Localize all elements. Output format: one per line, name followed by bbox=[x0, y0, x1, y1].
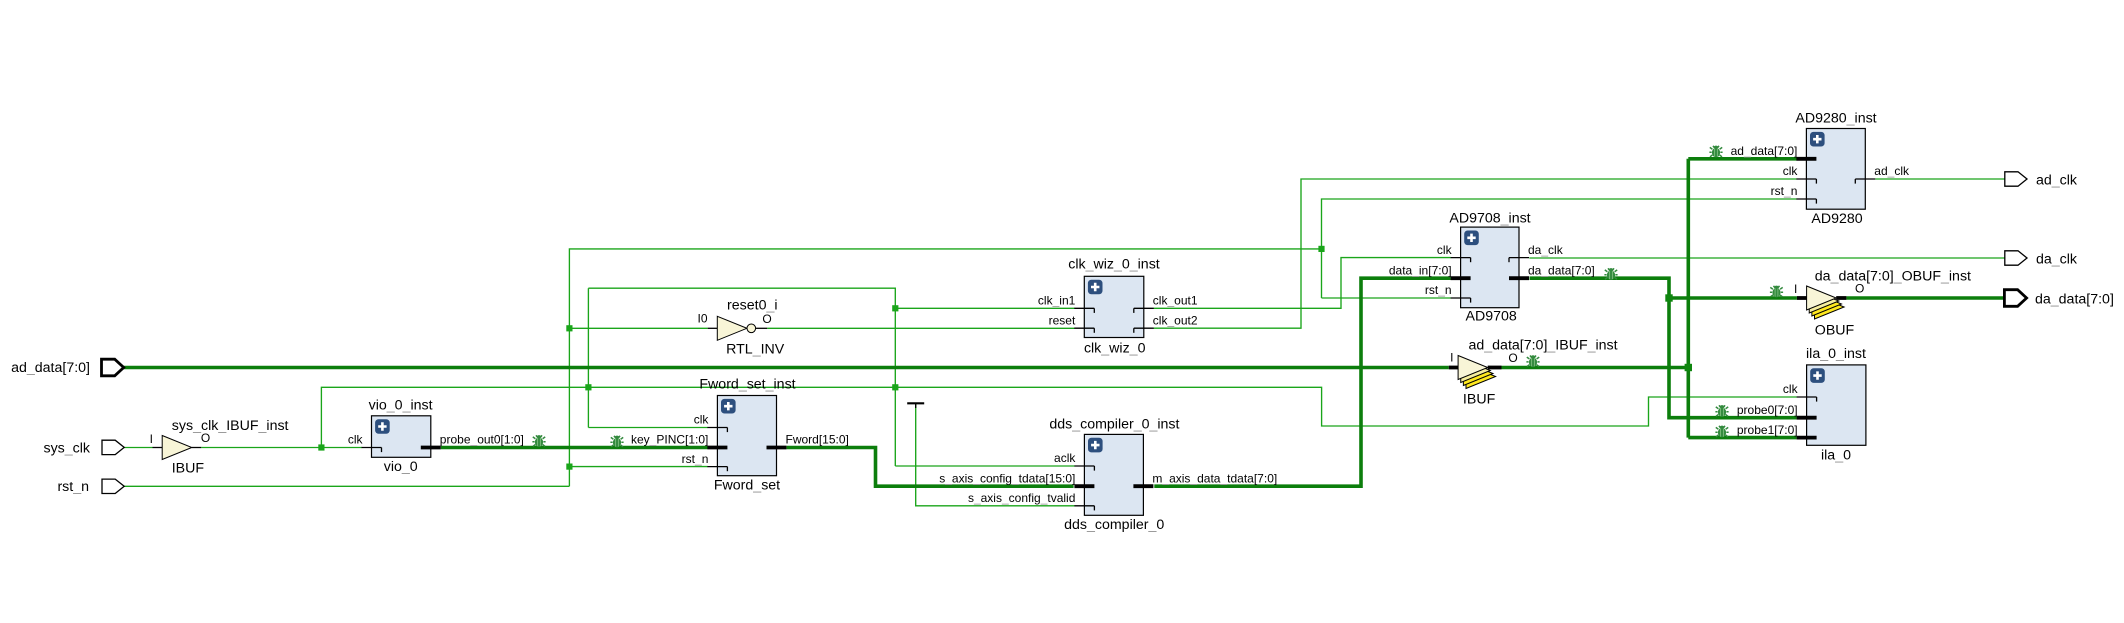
bug icon probe1 bbox=[1715, 426, 1728, 438]
buffer da_data[7:0]_OBUF_inst (OBUF stacked) bbox=[1815, 295, 1845, 319]
port ad_clk output bbox=[2005, 172, 2027, 186]
pin clk of vio_0 bbox=[362, 447, 382, 449]
svg-text:key_PINC[1:0]: key_PINC[1:0] bbox=[631, 433, 708, 447]
pin clk_out2 of clk_wiz_0 bbox=[1134, 327, 1154, 329]
block AD9280_inst bbox=[1806, 129, 1865, 210]
pin da_data[7:0] of AD9708 bbox=[1509, 276, 1529, 280]
svg-text:rst_n: rst_n bbox=[1425, 283, 1452, 297]
pin ad_clk of AD9280 bbox=[1855, 178, 1875, 180]
svg-text:O: O bbox=[1508, 351, 1517, 365]
svg-text:rst_n: rst_n bbox=[57, 479, 89, 495]
block AD9708_inst bbox=[1461, 227, 1519, 308]
svg-text:sys_clk: sys_clk bbox=[43, 440, 90, 456]
svg-text:Fword[15:0]: Fword[15:0] bbox=[786, 433, 849, 447]
pin clk of AD9280 bbox=[1796, 178, 1816, 180]
svg-text:probe0[7:0]: probe0[7:0] bbox=[1737, 403, 1798, 417]
svg-text:AD9708_inst: AD9708_inst bbox=[1449, 211, 1530, 227]
svg-text:vio_0_inst: vio_0_inst bbox=[369, 398, 433, 414]
svg-text:clk: clk bbox=[1437, 243, 1453, 257]
wire rst_n vertical x569 bbox=[569, 249, 1321, 486]
pin rst_n of AD9280 bbox=[1796, 198, 1816, 200]
buffer ad_data[7:0]_IBUF_inst (IBUF stacked) bbox=[1466, 365, 1496, 389]
inverter reset0_i (RTL_INV) bbox=[717, 316, 747, 340]
junction da_data OBUF branch bbox=[1665, 294, 1672, 301]
wire ad_data[7:0] bus from port to IBUF bbox=[122, 366, 1449, 370]
block ila_0_inst bbox=[1807, 365, 1866, 445]
port ad_data[7:0] input bbox=[102, 359, 124, 376]
wire reset0 net: RTL_INV O to clk_wiz reset bbox=[767, 327, 1074, 329]
wire clk net riser from junction up bbox=[321, 387, 1796, 447]
port da_clk output bbox=[2005, 251, 2027, 265]
svg-text:rst_n: rst_n bbox=[682, 452, 709, 466]
svg-text:dds_compiler_0: dds_compiler_0 bbox=[1064, 517, 1164, 533]
svg-text:data_in[7:0]: data_in[7:0] bbox=[1389, 263, 1452, 277]
svg-text:I0: I0 bbox=[697, 312, 707, 326]
pin reset of clk_wiz_0 bbox=[1074, 327, 1094, 329]
pin rst_n of Fword_set bbox=[707, 466, 727, 468]
port da_data[7:0] output bbox=[2004, 290, 2026, 307]
svg-text:clk: clk bbox=[348, 433, 364, 447]
pin rst_n of AD9708 bbox=[1451, 297, 1471, 299]
svg-text:clk_in1: clk_in1 bbox=[1038, 294, 1076, 308]
constant tie (vdd bar) for s_axis_config_tvalid bbox=[907, 402, 924, 404]
bug icon probe_out0 bbox=[532, 435, 545, 447]
svg-text:ad_data[7:0]: ad_data[7:0] bbox=[11, 360, 90, 376]
wire rst_n to AD9708 rst_n bbox=[1322, 297, 1451, 299]
svg-text:I: I bbox=[1794, 282, 1797, 296]
svg-text:I: I bbox=[1450, 351, 1453, 365]
junction rst_n RTL_INV bbox=[566, 325, 572, 331]
wire rst_n port horizontal bbox=[123, 485, 569, 487]
wire sys_clk port to IBUF bbox=[123, 447, 153, 449]
wire rst_n branch to Fword_set rst_n bbox=[569, 466, 707, 468]
svg-text:clk: clk bbox=[694, 413, 710, 427]
bug icon OBUF I bbox=[1770, 286, 1783, 298]
svg-text:IBUF: IBUF bbox=[172, 460, 205, 476]
wire probe_out0 bus vio to Fword key_PINC bbox=[441, 446, 708, 450]
block Fword_set_inst bbox=[717, 396, 776, 476]
wire rst_n branch to RTL_INV I0 bbox=[569, 327, 707, 329]
wire clk_out1 to AD9708 clk bbox=[1154, 258, 1451, 309]
pin s_axis_config_tvalid of dds_compiler_0 bbox=[1074, 505, 1094, 507]
pin clk_in1 of clk_wiz_0 bbox=[1074, 307, 1094, 309]
pin da_clk of AD9708 bbox=[1509, 257, 1529, 259]
svg-text:ad_data[7:0]: ad_data[7:0] bbox=[1731, 144, 1798, 158]
block vio_0_inst bbox=[372, 416, 431, 458]
svg-text:probe_out0[1:0]: probe_out0[1:0] bbox=[440, 433, 524, 447]
svg-text:clk_out2: clk_out2 bbox=[1153, 313, 1198, 327]
wire const to dds s_axis_config_tvalid bbox=[916, 405, 1075, 506]
svg-text:da_data[7:0]: da_data[7:0] bbox=[1528, 263, 1595, 277]
svg-text:ad_clk: ad_clk bbox=[1874, 164, 1910, 178]
svg-text:probe1[7:0]: probe1[7:0] bbox=[1737, 423, 1798, 437]
port rst_n input bbox=[102, 479, 124, 493]
pin data_in[7:0] of AD9708 bbox=[1451, 276, 1471, 280]
pin Fword[15:0] of Fword_set bbox=[767, 446, 787, 450]
svg-text:aclk: aclk bbox=[1054, 451, 1076, 465]
pin probe_out0[1:0] of vio_0 bbox=[421, 446, 441, 450]
block dds_compiler_0_inst bbox=[1084, 434, 1143, 515]
svg-text:da_clk: da_clk bbox=[1528, 243, 1564, 257]
pin m_axis_data_tdata[7:0] of dds_compiler_0 bbox=[1133, 484, 1153, 488]
wire m_axis_data bus to AD9708 data_in bbox=[1154, 278, 1450, 486]
junction clk net x588 bbox=[585, 384, 591, 390]
svg-text:dds_compiler_0_inst: dds_compiler_0_inst bbox=[1049, 416, 1179, 432]
svg-text:clk_wiz_0: clk_wiz_0 bbox=[1084, 341, 1146, 357]
junction rst_n Fword bbox=[566, 464, 572, 470]
junction clk net clk_in1 bbox=[892, 305, 898, 311]
svg-text:ila_0_inst: ila_0_inst bbox=[1806, 346, 1866, 362]
wire ad_data bus to ila probe1 bbox=[1688, 436, 1796, 440]
wire ad_data bus to AD9280 bbox=[1688, 157, 1796, 161]
svg-text:da_clk: da_clk bbox=[2036, 252, 2078, 268]
svg-text:vio_0: vio_0 bbox=[384, 459, 418, 475]
junction sys_clk at vio bbox=[318, 444, 324, 450]
pin clk of AD9708 bbox=[1451, 257, 1471, 259]
svg-text:IBUF: IBUF bbox=[1463, 391, 1496, 407]
svg-text:s_axis_config_tdata[15:0]: s_axis_config_tdata[15:0] bbox=[939, 471, 1075, 485]
wire da_clk net to port bbox=[1529, 257, 2005, 259]
svg-text:O: O bbox=[201, 431, 210, 445]
junction ad_data net bbox=[1685, 364, 1692, 371]
wire ad_clk net to port bbox=[1875, 178, 2005, 180]
buffer sys_clk_IBUF_inst (IBUF) bbox=[162, 436, 192, 460]
wire sys_clk_IBUF output net: IBUF to vio_0 clk bbox=[201, 447, 362, 449]
bug icon da_data bbox=[1604, 268, 1617, 280]
svg-text:ad_clk: ad_clk bbox=[2036, 173, 2078, 189]
svg-text:clk_out1: clk_out1 bbox=[1153, 294, 1198, 308]
bug icon key_PINC bbox=[610, 436, 623, 448]
svg-text:clk_wiz_0_inst: clk_wiz_0_inst bbox=[1068, 257, 1160, 273]
wire clk net to clk_wiz clk_in1 bbox=[895, 307, 1074, 309]
svg-text:reset0_i: reset0_i bbox=[727, 298, 777, 314]
wire rst_n vertical x1321 to AD9280/AD9708 bbox=[1322, 199, 1797, 298]
wire clk net vertical x588 bbox=[587, 288, 589, 427]
wire ad_data IBUF output bus bbox=[1502, 366, 1689, 370]
wire da_data bus branch to OBUF bbox=[1669, 296, 1797, 300]
pin clk of ila_0 bbox=[1797, 396, 1817, 398]
wire Fword bus to dds s_axis_config_tdata bbox=[787, 448, 1074, 487]
bug icon probe0 bbox=[1715, 405, 1728, 417]
svg-text:Fword_set: Fword_set bbox=[714, 478, 780, 494]
pin clk_out1 of clk_wiz_0 bbox=[1134, 307, 1154, 309]
pin clk of Fword_set bbox=[707, 427, 727, 429]
svg-text:rst_n: rst_n bbox=[1771, 184, 1798, 198]
pin key_PINC[1:0] of Fword_set bbox=[707, 446, 727, 450]
svg-text:OBUF: OBUF bbox=[1815, 322, 1855, 338]
block clk_wiz_0_inst bbox=[1084, 276, 1144, 337]
wire clk_out2 to AD9280 clk bbox=[1154, 179, 1797, 328]
pin aclk of dds_compiler_0 bbox=[1074, 465, 1094, 467]
wire ad_data bus vertical x1688 bbox=[1687, 159, 1691, 438]
port sys_clk input bbox=[102, 440, 124, 454]
svg-text:Fword_set_inst: Fword_set_inst bbox=[699, 377, 795, 393]
svg-text:m_axis_data_tdata[7:0]: m_axis_data_tdata[7:0] bbox=[1152, 471, 1277, 485]
svg-text:da_data[7:0]: da_data[7:0] bbox=[2035, 292, 2114, 308]
svg-text:RTL_INV: RTL_INV bbox=[726, 341, 785, 357]
svg-text:clk: clk bbox=[1783, 382, 1799, 396]
pin probe1[7:0] of ila_0 bbox=[1797, 436, 1817, 440]
svg-text:ila_0: ila_0 bbox=[1821, 447, 1851, 463]
svg-text:AD9280_inst: AD9280_inst bbox=[1795, 111, 1876, 127]
junction rst_n x1321 bbox=[1318, 246, 1324, 252]
pin probe0[7:0] of ila_0 bbox=[1797, 416, 1817, 420]
svg-text:sys_clk_IBUF_inst: sys_clk_IBUF_inst bbox=[172, 418, 289, 434]
svg-text:s_axis_config_tvalid: s_axis_config_tvalid bbox=[968, 491, 1075, 505]
svg-text:reset: reset bbox=[1049, 313, 1076, 327]
svg-text:clk: clk bbox=[1783, 164, 1799, 178]
svg-text:O: O bbox=[762, 312, 771, 326]
wire da_data OBUF output to port bbox=[1846, 296, 2005, 300]
svg-text:da_data[7:0]_OBUF_inst: da_data[7:0]_OBUF_inst bbox=[1815, 269, 1971, 285]
bug icon ad_data AD9280 bbox=[1709, 146, 1722, 158]
svg-text:ad_data[7:0]_IBUF_inst: ad_data[7:0]_IBUF_inst bbox=[1469, 337, 1618, 353]
svg-text:AD9708: AD9708 bbox=[1466, 309, 1517, 325]
svg-text:AD9280: AD9280 bbox=[1811, 211, 1862, 227]
svg-text:O: O bbox=[1855, 282, 1864, 296]
junction clk net x895 bbox=[892, 384, 898, 390]
pin s_axis_config_tdata[15:0] of dds_compiler_0 bbox=[1074, 484, 1094, 488]
wire clk net to dds aclk bbox=[895, 465, 1074, 467]
wire clk net horizontal y288 bbox=[588, 288, 895, 466]
pin ad_data[7:0] of AD9280 bbox=[1796, 157, 1816, 161]
wire da_data bus AD9708 to ila probe0 bbox=[1530, 278, 1797, 418]
svg-text:I: I bbox=[150, 432, 153, 446]
wire clk net to Fword_set clk bbox=[588, 427, 707, 429]
bug icon ad_data IBUF O bbox=[1526, 355, 1539, 367]
